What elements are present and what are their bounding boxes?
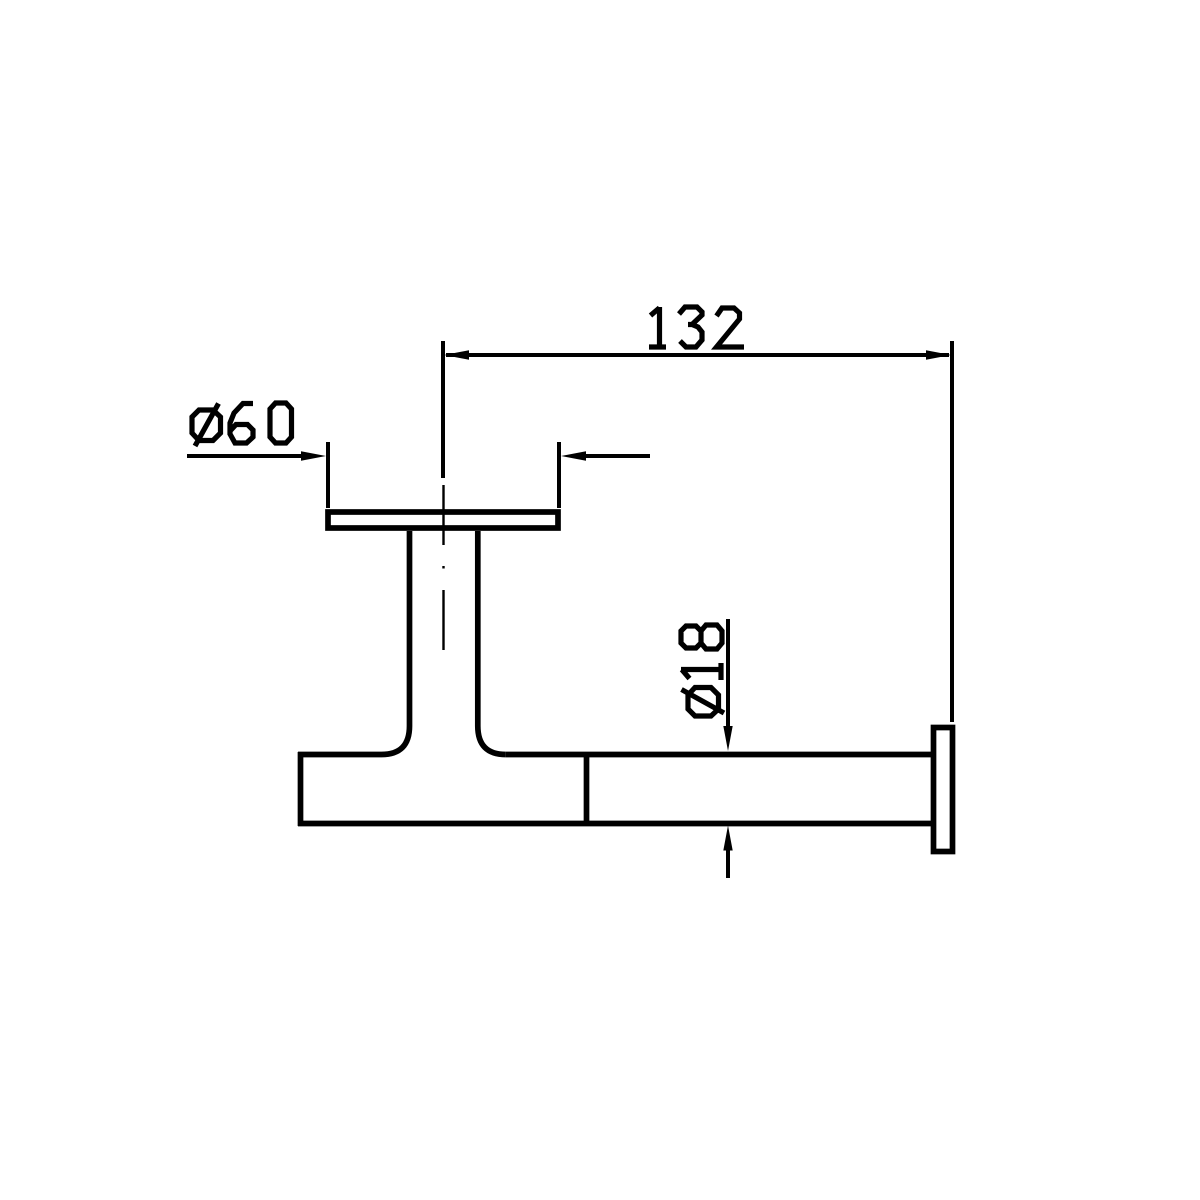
dim 132 left extension line (441, 341, 445, 478)
end cap (roll holder end plate) (934, 728, 953, 852)
centerline of stem (dash-dot) (442, 485, 444, 545)
stem right line with fillet (478, 531, 506, 755)
dim text Ø18 (rotated) (681, 625, 724, 716)
dim text Ø60 (192, 403, 292, 446)
bar bottom edge (298, 821, 931, 827)
flange (wall plate, Ø60) (328, 512, 558, 528)
dim Ø60 left extension line (326, 442, 330, 508)
dim Ø18 lower arrow (points up) (723, 826, 732, 851)
divider between bracket and roll bar (584, 752, 590, 826)
dim Ø60 right extension line (557, 442, 561, 508)
dim Ø18 lower line (726, 849, 730, 878)
dim 132 left arrow (444, 350, 469, 359)
stem left line with fillet (382, 531, 410, 755)
dim Ø60 left arrow (points right) (301, 451, 326, 460)
dim Ø60 left leader line (187, 454, 305, 458)
dim 132 right arrow (926, 350, 951, 359)
dim Ø18 upper arrow (points down) (723, 726, 732, 751)
dim Ø18 upper line (726, 619, 730, 728)
dim 132 right extension line (950, 341, 954, 722)
dim Ø60 right arrow (points left) (561, 451, 586, 460)
dim text 132 (649, 307, 744, 347)
bar top edge right segment (506, 752, 931, 758)
bracket block left edge (298, 752, 304, 826)
dim Ø60 right leader line (583, 454, 650, 458)
bracket top edge left segment (298, 752, 382, 758)
dim 132 dimension line (446, 353, 949, 357)
